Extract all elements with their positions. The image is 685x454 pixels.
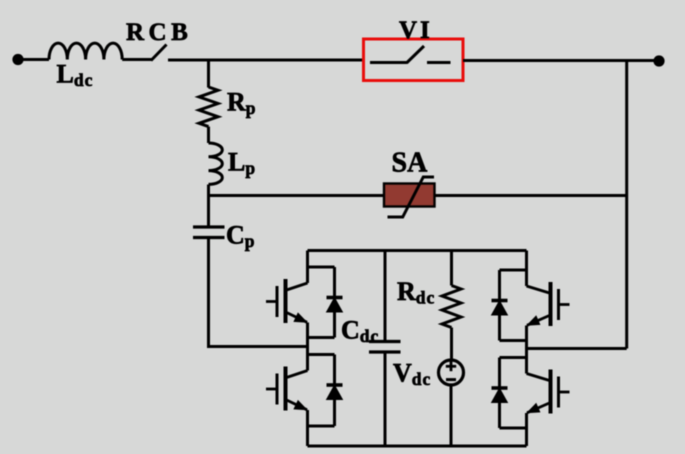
- resistor Rp: [199, 87, 218, 127]
- wire: Ldc to RCB switch: [122, 58, 152, 61]
- inductor Ldc: [49, 43, 122, 59]
- wire: bridge bottom rail: [308, 445, 527, 448]
- wire: right vertical drop: [625, 61, 628, 349]
- capacitor Cp: [193, 225, 225, 228]
- node: right terminal dot: [653, 55, 664, 66]
- wire: SA to right vertical: [435, 194, 627, 197]
- transistor Q1 (top-left IGBT): [266, 251, 308, 347]
- wire: bridge top rail: [308, 249, 527, 252]
- inductor Lp: [209, 143, 223, 184]
- transistor Q2 (bottom-left IGBT): [266, 347, 308, 447]
- wire: left terminal to Ldc: [18, 58, 49, 61]
- diode D3 (antiparallel, top-right): [492, 270, 527, 341]
- source Vdc: [439, 360, 464, 385]
- resistor Rdc: [450, 251, 453, 286]
- wire: Lp to SA junction: [207, 185, 210, 228]
- wire: VI to right terminal: [463, 59, 659, 62]
- switch RCB (blade): [151, 45, 167, 61]
- diode D2 (antiparallel, bottom-left): [308, 355, 343, 427]
- wire: junction to SA: [209, 194, 385, 197]
- surge arrester SA (varistor): [384, 184, 435, 207]
- capacitor Cdc: [384, 251, 387, 342]
- switch inside VI: [370, 61, 407, 64]
- diode D4 (antiparallel, bottom-right): [492, 358, 527, 429]
- node: left terminal dot: [12, 54, 23, 65]
- wire: bridge right midpoint to right vertical: [527, 347, 627, 350]
- transistor Q3 (top-right IGBT, mirrored): [527, 251, 570, 349]
- transistor Q4 (bottom-right IGBT, mirrored): [527, 349, 570, 447]
- node: junction of Rp branch on top wire: [207, 60, 210, 88]
- wire: Rp to Lp: [207, 127, 210, 143]
- vacuum interrupter VI (red box): [364, 39, 464, 81]
- diode D1 (antiparallel, top-left): [308, 267, 343, 338]
- svg-text:VI: VI: [399, 17, 433, 44]
- svg-text:SA: SA: [392, 148, 429, 179]
- wire: RCB to VI box: [168, 59, 364, 62]
- wire: Cp down and across to bridge left midpoint: [209, 238, 308, 347]
- svg-text:RCB: RCB: [126, 19, 192, 46]
